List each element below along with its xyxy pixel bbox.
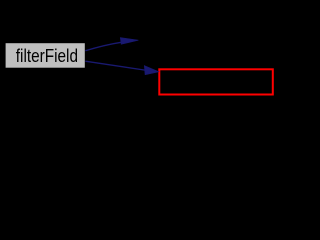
node top-right (invisible black node) [139, 28, 273, 52]
wire edge 1: filterField -> top node [85, 38, 138, 51]
node bottom-right (red border, truncated) [159, 69, 272, 94]
node filterField (current node, grey) [6, 43, 85, 67]
wire edge 2: filterField -> red node [85, 61, 159, 75]
svg-text:filterField: filterField [16, 46, 78, 66]
